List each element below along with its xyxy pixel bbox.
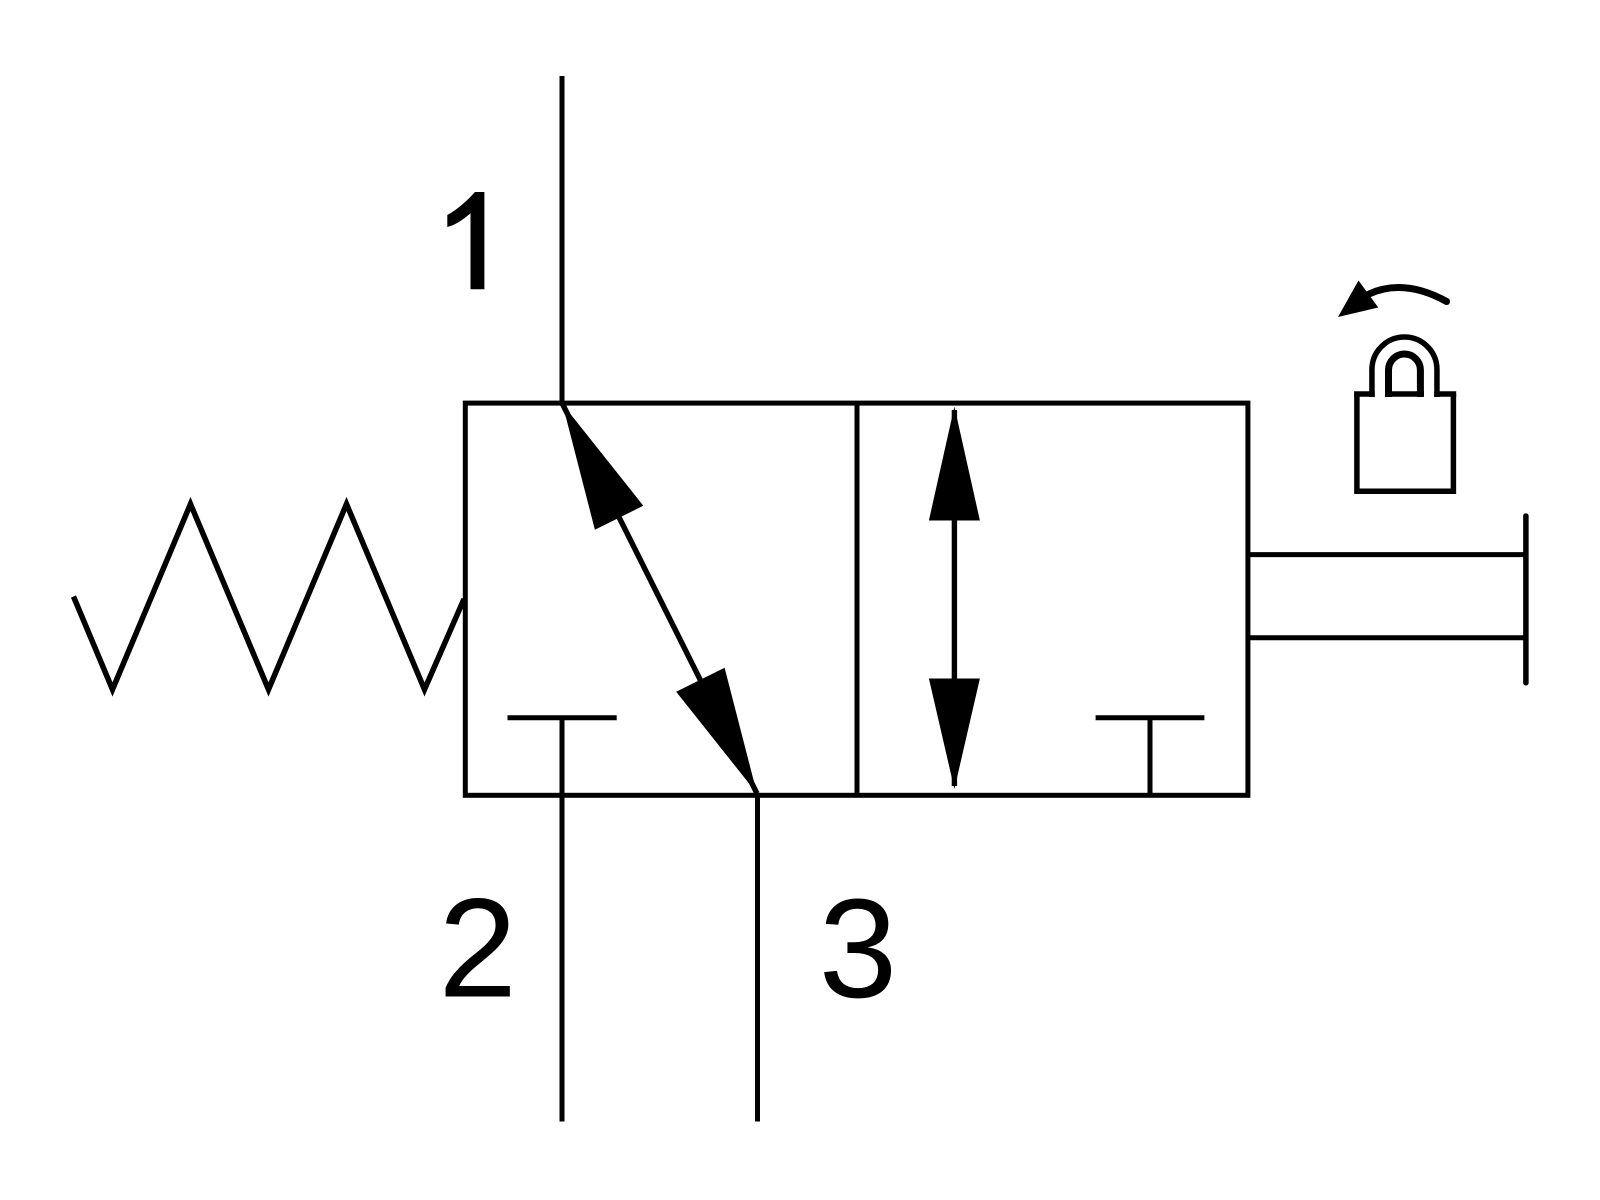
svg-text:2: 2 [439,869,517,1027]
svg-text:3: 3 [819,869,897,1027]
